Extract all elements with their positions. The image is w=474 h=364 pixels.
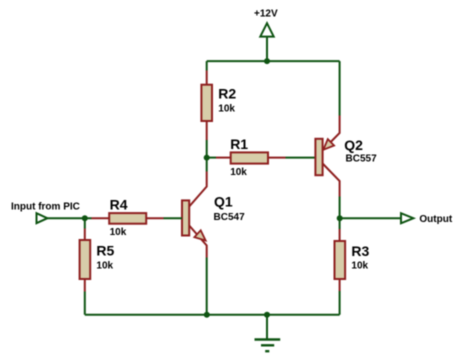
svg-text:BC557: BC557 — [346, 153, 378, 164]
transistor Q2 emitter pin — [323, 116, 340, 151]
resistor R5 — [80, 240, 91, 279]
wire Q2 collector to node — [339, 197, 341, 219]
svg-text:Output: Output — [419, 214, 452, 225]
svg-text:+12V: +12V — [254, 9, 278, 20]
transistor Q1 emitter pin — [189, 226, 207, 258]
wire R5 bottom pin — [84, 279, 86, 292]
wire R1 to Q2 base — [286, 157, 316, 159]
wire rail to Q2 emitter — [339, 61, 341, 115]
node junction input/R4/R5 — [82, 215, 88, 221]
svg-text:R4: R4 — [110, 196, 128, 212]
svg-text:Input from PIC: Input from PIC — [11, 201, 80, 212]
wire R3 top pin — [339, 229, 341, 242]
transistor Q2 emitter arrow (PNP, points into base) — [323, 139, 334, 150]
svg-text:10k: 10k — [110, 227, 127, 238]
terminal output triangle — [401, 213, 413, 223]
svg-text:R3: R3 — [351, 243, 369, 259]
resistor R4 — [109, 213, 146, 224]
wire rail to R2 — [206, 61, 208, 70]
wire R3 to bottom rail — [339, 291, 341, 315]
wire +12V stem — [266, 37, 268, 62]
node junction ground on rail — [264, 312, 270, 318]
node junction Q2/R3/output — [337, 215, 343, 221]
svg-text:10k: 10k — [218, 104, 235, 115]
transistor Q1 emitter arrow — [194, 230, 205, 240]
svg-text:R2: R2 — [218, 85, 236, 101]
wire node to R5 — [84, 218, 86, 228]
wire R2 bottom pin — [206, 121, 208, 140]
wire input to node — [47, 217, 91, 219]
wire R1 left pin — [216, 157, 231, 159]
wire bottom rail — [85, 314, 340, 316]
wire Q1 emitter to bottom rail — [206, 258, 208, 315]
wire R1 right pin — [268, 157, 286, 159]
node junction +12V on rail — [264, 58, 270, 64]
svg-text:Q2: Q2 — [344, 137, 363, 153]
wire R2 to Q1 collector node — [206, 140, 208, 172]
resistor R3 — [335, 241, 346, 279]
resistor R1 — [231, 152, 268, 163]
node junction Q1 emitter on rail — [204, 312, 210, 318]
wire R2 top pin — [206, 71, 208, 86]
svg-text:R5: R5 — [96, 242, 114, 258]
svg-text:R1: R1 — [230, 136, 248, 152]
wire R4 to Q1 base — [164, 217, 183, 219]
wire R5 to bottom rail — [84, 292, 86, 315]
wire R5 top pin — [84, 229, 86, 241]
transistor Q1 collector pin — [189, 172, 207, 207]
transistor Q1 base bar — [182, 200, 189, 235]
power +12V symbol arrow — [260, 23, 273, 36]
wire ground stem — [266, 315, 268, 339]
svg-text:Q1: Q1 — [214, 193, 233, 209]
wire top +12V rail — [207, 60, 340, 62]
transistor Q2 collector pin — [323, 164, 340, 197]
svg-text:10k: 10k — [96, 261, 113, 272]
wire node to R3 — [339, 218, 341, 229]
terminal input triangle — [37, 213, 48, 223]
svg-text:BC547: BC547 — [214, 212, 246, 223]
svg-text:10k: 10k — [351, 261, 368, 272]
node junction R1/R2/Q1 — [204, 155, 210, 161]
wire R3 bottom pin — [339, 279, 341, 291]
svg-text:10k: 10k — [230, 167, 247, 178]
wire node to R1 — [207, 157, 216, 159]
resistor R2 — [201, 85, 212, 121]
wire R4 right pin — [146, 217, 163, 219]
wire R4 left pin — [92, 217, 110, 219]
wire node to output terminal — [340, 217, 401, 219]
ground symbol — [255, 340, 281, 352]
transistor Q2 base bar — [315, 139, 322, 175]
